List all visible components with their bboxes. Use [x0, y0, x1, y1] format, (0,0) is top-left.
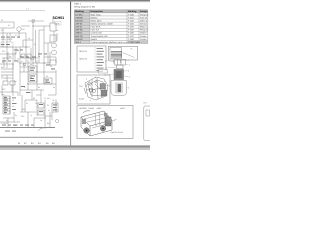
- component rows left: [1, 69, 15, 85]
- fuse box: [44, 78, 52, 84]
- wire: [17, 92, 19, 96]
- small circle mid: [23, 63, 26, 66]
- wire: [13, 112, 15, 122]
- svg-text:SCH01: SCH01: [53, 16, 65, 20]
- svg-text:8M: 8M: [47, 122, 50, 125]
- svg-text:11: 11: [105, 67, 107, 70]
- svg-text:LOCK: LOCK: [7, 38, 13, 41]
- top connector tick: [32, 20, 35, 22]
- wire: [12, 47, 14, 96]
- wire: [2, 57, 12, 59]
- svg-text:T-140: T-140: [128, 26, 134, 29]
- switch S1: [1, 42, 13, 47]
- table body col2: [91, 13, 130, 44]
- wire: [44, 56, 56, 58]
- wire: [1, 77, 13, 79]
- wire: [26, 57, 38, 59]
- svg-text:Relay b: Relay b: [140, 29, 148, 32]
- wire: [56, 33, 58, 41]
- wire: [34, 117, 45, 119]
- wire: [43, 26, 45, 84]
- machine left dark bit: [82, 119, 86, 124]
- svg-text:T-120: T-120: [128, 19, 134, 22]
- wire: [28, 83, 56, 85]
- wire: [21, 25, 30, 27]
- wire: [49, 112, 51, 127]
- connector strip X1: [3, 96, 10, 114]
- table body col1: [75, 13, 83, 44]
- svg-text:Control unit: Control unit: [91, 32, 103, 35]
- connector rungs: [3, 99, 10, 112]
- svg-text:MCU 01: MCU 01: [80, 50, 88, 53]
- header faint rule: [0, 10, 45, 12]
- svg-text:5c: 5c: [34, 43, 36, 46]
- svg-text:Battery: Battery: [91, 16, 99, 19]
- pump dark part: [100, 84, 106, 90]
- module box: [38, 103, 44, 108]
- svg-text:T-160: T-160: [128, 32, 134, 35]
- wire: [48, 94, 56, 96]
- wire: [39, 29, 44, 31]
- wire: [4, 96, 6, 114]
- lamp H1: [52, 43, 57, 48]
- svg-text:4: 4: [90, 99, 91, 102]
- wire: [47, 43, 49, 63]
- wire: [9, 96, 11, 114]
- wire: [24, 100, 26, 112]
- wire: [20, 62, 50, 64]
- svg-text:3SF-05: 3SF-05: [75, 29, 83, 32]
- table body col3: [128, 13, 134, 41]
- svg-text:SWITCH PLUG: SWITCH PLUG: [111, 131, 124, 134]
- svg-text:4: 4: [129, 76, 130, 79]
- wire: [49, 52, 51, 63]
- svg-text:12: 12: [105, 60, 107, 63]
- svg-text:Marking: Marking: [75, 10, 84, 13]
- svg-text:2z: 2z: [15, 114, 17, 117]
- text rows upper-left cluster: [1, 37, 47, 62]
- svg-text:3m: 3m: [14, 80, 17, 83]
- svg-text:Switch: Switch: [140, 32, 147, 35]
- svg-text:36A-1: 36A-1: [75, 41, 82, 44]
- svg-text:Wiring diagram to MD: Wiring diagram to MD: [74, 6, 96, 9]
- relay K1: [50, 23, 56, 31]
- device callout labels: [103, 59, 130, 90]
- wire: [9, 33, 11, 42]
- box P (rating plate): [109, 46, 138, 60]
- device leader lines: [105, 60, 129, 88]
- svg-text:1M: 1M: [22, 28, 25, 31]
- cup stripes: [116, 83, 122, 94]
- wire: [55, 57, 57, 63]
- footer rule left page: [0, 136, 63, 138]
- device connector: [115, 60, 126, 66]
- contactor inner marks: [30, 68, 57, 113]
- svg-text:Table 1: Table 1: [74, 2, 82, 5]
- box C (motor pump assy): [77, 106, 133, 139]
- wire: [22, 40, 24, 47]
- junction dots: [13, 26, 46, 119]
- top connector mark: [28, 20, 44, 22]
- svg-text:ASSY: ASSY: [97, 107, 103, 110]
- wire: [38, 30, 40, 63]
- svg-text:6s: 6s: [38, 86, 40, 89]
- svg-text:PUMP: PUMP: [89, 107, 95, 110]
- wheel hub: [86, 130, 88, 132]
- svg-text:31: 31: [44, 97, 46, 100]
- svg-text:T-130: T-130: [128, 23, 134, 26]
- text below bus: [5, 130, 16, 133]
- svg-text:12: 12: [35, 102, 37, 105]
- wire: [19, 47, 21, 96]
- pin list rows: [97, 48, 105, 71]
- svg-text:10A-21: 10A-21: [75, 26, 83, 29]
- machine dark edge band: [104, 112, 112, 124]
- pin list divider: [94, 47, 96, 71]
- device cup: [111, 81, 127, 96]
- wire: [12, 64, 14, 69]
- wire top bus: [0, 32, 26, 34]
- wire: [51, 112, 53, 120]
- svg-text:1M-201: 1M-201: [75, 19, 83, 22]
- wire: [6, 33, 8, 68]
- device dark body: [114, 70, 124, 80]
- right box inner shape: [146, 110, 150, 116]
- wire: [33, 25, 50, 27]
- label plate small box: [99, 70, 108, 73]
- svg-text:3: 3: [128, 70, 129, 73]
- svg-text:6e: 6e: [9, 55, 11, 58]
- small comp right-mid: [56, 120, 59, 123]
- contact block: [27, 54, 31, 58]
- svg-text:Pump m: Pump m: [140, 13, 148, 16]
- rating plate: [110, 48, 122, 59]
- wire: [0, 63, 13, 65]
- box B labels: [79, 76, 105, 102]
- label 4SB: [55, 22, 62, 25]
- lamp H2: [52, 50, 57, 55]
- wire: [0, 46, 30, 48]
- text dash row above bus: [2, 124, 34, 127]
- svg-text:Sensor: Sensor: [140, 23, 147, 26]
- relay K2: [50, 35, 56, 42]
- wire: [25, 33, 27, 62]
- wire: [20, 111, 36, 113]
- svg-text:9SB-02: 9SB-02: [75, 38, 83, 41]
- wire: [40, 90, 42, 103]
- svg-text:X2: X2: [12, 105, 14, 108]
- svg-text:5A1: 5A1: [47, 97, 50, 100]
- wire: [13, 22, 15, 28]
- svg-text:9g: 9g: [38, 55, 40, 58]
- svg-text:Fuse 50 A: Fuse 50 A: [91, 26, 101, 29]
- top scan shadow edge: [0, 0, 150, 3]
- svg-text:K2: K2: [50, 65, 52, 68]
- connector pin marks: [4, 97, 17, 113]
- svg-text:B-12: B-12: [99, 70, 103, 73]
- svg-text:Design: Design: [140, 10, 148, 13]
- wire: [44, 115, 52, 117]
- wire: [27, 60, 29, 90]
- svg-text:Marking: Marking: [128, 10, 137, 13]
- right cut box: [144, 106, 151, 141]
- svg-text:Switch: Switch: [91, 38, 98, 41]
- wire: [53, 31, 55, 42]
- wire: [3, 58, 5, 68]
- device body core: [116, 71, 122, 78]
- svg-text:3: 3: [86, 78, 87, 81]
- wire: [7, 52, 9, 60]
- svg-text:2d: 2d: [17, 49, 19, 52]
- cup core: [118, 84, 122, 92]
- pump circle detail: [89, 88, 93, 92]
- center page separator line: [0, 0, 1, 1]
- wire: [36, 100, 38, 116]
- svg-text:T-100: T-100: [128, 13, 134, 16]
- wire: [2, 28, 4, 47]
- svg-text:5v: 5v: [53, 86, 55, 89]
- pump detail circles: [89, 83, 92, 86]
- contactor block: [29, 66, 37, 72]
- wire: [0, 27, 14, 29]
- svg-text:MOTOR: MOTOR: [80, 107, 88, 110]
- wire: [7, 118, 9, 127]
- svg-text:ALVAT: ALVAT: [79, 98, 85, 101]
- svg-text:T-180: T-180: [128, 38, 134, 41]
- svg-text:1A-3A1: 1A-3A1: [75, 13, 83, 16]
- svg-text:T-170: T-170: [128, 35, 134, 38]
- motor symbol M1: [17, 27, 21, 31]
- svg-text:Motor c: Motor c: [140, 26, 148, 29]
- header text: [75, 10, 148, 13]
- wire: [14, 52, 16, 60]
- wire: [37, 71, 56, 73]
- wire: [18, 31, 20, 38]
- wire: [11, 85, 13, 92]
- svg-text:4SB-11: 4SB-11: [75, 32, 83, 35]
- page background: [0, 0, 150, 150]
- wire: [27, 112, 29, 127]
- svg-text:2: 2: [129, 64, 130, 67]
- schematic tiny labels: [1, 19, 59, 127]
- svg-text:T-190 Cable: T-190 Cable: [128, 41, 141, 44]
- svg-text:1q: 1q: [40, 119, 42, 122]
- svg-text:Designation: Designation: [91, 10, 104, 13]
- svg-text:5h: 5h: [1, 66, 3, 69]
- parts table: [74, 10, 148, 44]
- wire: [30, 48, 32, 62]
- wire: [6, 75, 8, 81]
- wire: [25, 99, 37, 101]
- svg-text:Travel switch, left: Travel switch, left: [91, 35, 108, 38]
- wire: [20, 71, 29, 73]
- device neck: [117, 65, 124, 69]
- svg-text:1SB1: 1SB1: [1, 38, 6, 41]
- contact block: [21, 54, 25, 58]
- fuse inner marks: [21, 65, 55, 93]
- footer text: [18, 142, 55, 145]
- wire: [36, 94, 41, 96]
- svg-text:6SF-20: 6SF-20: [75, 35, 83, 38]
- wire: [0, 91, 18, 93]
- bottom scan edge band: [0, 145, 150, 147]
- valve device figure: [115, 60, 126, 69]
- wire: [20, 66, 29, 68]
- svg-text:2n: 2n: [30, 63, 32, 66]
- pump isometric drawing: [84, 77, 108, 100]
- machine dark detail: [105, 117, 111, 126]
- pump dark part 2: [101, 90, 107, 96]
- svg-text:Control equipment (defines car: Control equipment (defines carrier code): [91, 41, 130, 44]
- svg-text:3x: 3x: [26, 102, 28, 105]
- plate stripes: [111, 52, 122, 57]
- svg-text:7y: 7y: [30, 114, 32, 117]
- wire: [23, 63, 25, 72]
- wire: [32, 20, 34, 66]
- svg-text:1: 1: [128, 59, 129, 62]
- svg-text:K1: K1: [8, 24, 10, 27]
- table header fill: [74, 10, 148, 13]
- wire: [0, 21, 14, 23]
- module box: [52, 103, 58, 112]
- svg-text:1SB-50: 1SB-50: [75, 16, 83, 19]
- wire: [33, 118, 35, 127]
- wire: [36, 60, 38, 90]
- wire: [44, 100, 46, 127]
- wire: [52, 19, 54, 23]
- svg-text:4p: 4p: [30, 76, 32, 79]
- wire: [23, 39, 33, 41]
- svg-text:Valve a: Valve a: [140, 19, 148, 22]
- wire: [1, 85, 3, 96]
- box A (MCU): [77, 46, 106, 72]
- svg-text:1b: 1b: [28, 37, 30, 40]
- wire: [0, 121, 20, 123]
- svg-text:44: 44: [6, 119, 8, 122]
- svg-text:Conne: Conne: [140, 35, 147, 38]
- svg-text:7k: 7k: [1, 75, 3, 78]
- wheel hub 2: [102, 128, 104, 130]
- marking column fill: [74, 13, 89, 44]
- shaded cell bottom right: [127, 41, 148, 44]
- wire: [17, 58, 19, 63]
- machine inner lines: [84, 112, 111, 128]
- svg-text:Battery disconn. switch: Battery disconn. switch: [91, 23, 114, 26]
- box B (pump assembly): [77, 75, 110, 104]
- wire: [55, 99, 57, 112]
- small box mid-right: [50, 60, 56, 65]
- wire: [20, 89, 44, 91]
- wire: [44, 42, 52, 44]
- MCU labels: [80, 50, 88, 61]
- svg-text:5: 5: [114, 119, 115, 122]
- table grid: [74, 10, 148, 44]
- table body col4: [140, 13, 148, 41]
- svg-text:5: 5: [128, 87, 129, 90]
- svg-text:T-110: T-110: [128, 16, 134, 19]
- machine isometric drawing: [81, 111, 112, 136]
- machine leader: [112, 119, 117, 121]
- svg-text:MCU 02: MCU 02: [80, 58, 88, 61]
- svg-text:10A1: 10A1: [30, 58, 34, 61]
- contactor block: [29, 74, 37, 82]
- svg-text:T-150: T-150: [128, 29, 134, 32]
- wire: [55, 70, 57, 95]
- machine wheel 2: [100, 126, 105, 131]
- svg-text:Contro: Contro: [140, 38, 147, 41]
- svg-text:Main relay: Main relay: [91, 13, 102, 16]
- module box: [38, 110, 44, 115]
- wire: [21, 95, 23, 112]
- svg-text:1-41 42: 1-41 42: [1, 122, 7, 125]
- wire bottom bus: [0, 127, 55, 129]
- arrow mark bottom: [38, 128, 46, 131]
- svg-text:Motor drive: Motor drive: [91, 19, 103, 22]
- svg-text:X1: X1: [12, 99, 14, 102]
- wire: [0, 53, 16, 55]
- wire: [3, 117, 14, 119]
- svg-text:2SF-01: 2SF-01: [75, 23, 83, 26]
- svg-text:Fuse 5 A: Fuse 5 A: [91, 29, 100, 32]
- svg-text:Fuel se: Fuel se: [140, 16, 148, 19]
- machine wheel: [84, 128, 89, 133]
- leader from plate: [123, 53, 135, 58]
- svg-text:PL: PL: [131, 48, 133, 51]
- wire: [31, 90, 33, 100]
- device stub legs: [113, 60, 114, 64]
- wire: [15, 47, 17, 54]
- box C top labels: [80, 107, 127, 110]
